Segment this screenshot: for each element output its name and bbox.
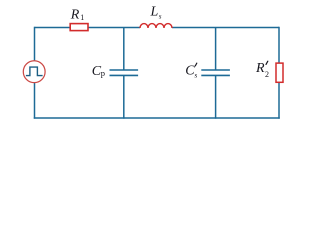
wire: C's branch upper (215, 28, 217, 71)
svg-text:p: p (101, 68, 105, 78)
wire: left vertical below source (34, 83, 36, 119)
inductor Ls coil (140, 24, 172, 28)
wire: Cp branch lower (123, 75, 125, 118)
svg-text:L: L (150, 5, 159, 20)
wire: right vertical below R'2 (278, 83, 280, 119)
capacitor C's plates (201, 69, 230, 71)
svg-text:R: R (255, 61, 265, 76)
svg-text:s: s (159, 13, 162, 21)
wire: top wire L_s to top-right corner with node at C's branch (172, 27, 279, 29)
source: square pulse symbol (26, 67, 43, 76)
wire: Cp branch upper (123, 28, 125, 71)
wire: top wire left segment (source node to R1) (34, 27, 280, 119)
svg-text:2: 2 (265, 70, 269, 79)
svg-text:s: s (194, 71, 197, 80)
wire: right vertical above R'2 (278, 27, 280, 63)
svg-text:R: R (70, 7, 80, 22)
capacitor Cp plates (110, 70, 230, 75)
resistor R'2 body (276, 63, 283, 82)
svg-text:1: 1 (80, 13, 84, 22)
source: pulse generator circle (23, 61, 45, 83)
wire: left vertical above source (34, 27, 36, 61)
wire: bottom wire (34, 117, 280, 119)
wire: top wire R1 to L_s with node at Cp branch (89, 27, 141, 29)
wire: C's branch lower (215, 75, 217, 118)
resistor R1 body (70, 24, 88, 31)
